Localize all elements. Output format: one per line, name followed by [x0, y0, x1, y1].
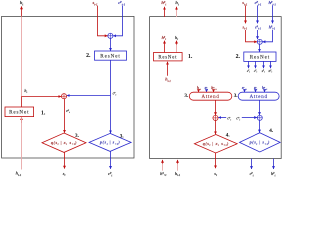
wire c^p_t-1 entering frame	[257, 5, 259, 23]
svg-text:ResNet: ResNet	[9, 110, 29, 116]
right panel frame	[150, 17, 282, 159]
wire h^q_<t up into frame (pale)	[162, 163, 164, 171]
wire ResNet1 to h^q_t label	[164, 41, 166, 53]
block ResNet 2 (left panel)	[95, 51, 127, 60]
wire s_t-1 into plus p	[98, 6, 108, 36]
wire e^q_t into posterior diamond	[64, 99, 66, 133]
wire h_t-1 into ResNet1	[167, 62, 169, 76]
arrowhead ResNet1 to h_t	[176, 41, 178, 45]
arrowhead h^q_<t	[162, 160, 164, 164]
distribution q(s_t|x,s_<t) diamond (right panel)	[194, 135, 237, 153]
wire h_{t-1} input below frame (pale)	[21, 158, 23, 170]
svg-text:Attend: Attend	[201, 95, 219, 100]
wire c^p_t-1 into plus p (right)	[257, 30, 259, 39]
wire ResNet1 to h_t label (pale)	[176, 44, 178, 53]
wire s_t output (right panel)	[215, 153, 217, 168]
wire Attend p to plus	[259, 100, 261, 115]
svg-text:2.: 2.	[86, 53, 91, 59]
svg-text:ResNet: ResNet	[100, 53, 120, 59]
wire c^p_t down to prior diamond	[110, 60, 112, 133]
wire h^q_t exit arrow	[164, 7, 166, 17]
wire h_t-1 up into frame (pale)	[177, 163, 179, 171]
wire plus to ResNet2 (right)	[259, 44, 261, 52]
wire h_t exit line (pale)	[176, 10, 178, 18]
distribution p(s_t|s_<t) diamond (right panel)	[240, 133, 281, 152]
block ResNet 1 (left panel)	[5, 107, 34, 117]
wire c^p_t-1 into plus p	[113, 6, 122, 36]
wire h_t exit arrowhead	[176, 7, 178, 10]
wire h^p_t-1 entering frame	[272, 5, 274, 23]
wire ResNet2 output 4	[270, 61, 272, 68]
wire h^p_t-1 into plus p (right)	[263, 30, 273, 42]
svg-text:1.: 1.	[41, 110, 46, 116]
wire s_t sample output (left panel)	[64, 152, 66, 168]
plus combiner q (left panel)	[61, 94, 66, 99]
wire h state line lower (pale)	[21, 117, 23, 158]
svg-text:Attend: Attend	[250, 95, 268, 100]
block ResNet 1 (right panel)	[154, 53, 183, 61]
plus combiner top (right panel)	[257, 39, 262, 44]
wire plus to ResNet2	[110, 38, 112, 50]
distribution q(s_t|x,s_<t) diamond (left panel)	[42, 133, 86, 152]
plus combiner p (right panel)	[257, 115, 262, 120]
block Attend prior (blue)	[238, 92, 279, 100]
wire z^p_t into Attend p	[255, 89, 257, 92]
svg-text:ResNet: ResNet	[158, 55, 177, 60]
wire into posterior diamond (right)	[215, 121, 217, 135]
block Attend posterior (red)	[189, 92, 232, 100]
wire c^p_t into plus q (right)	[218, 117, 226, 119]
distribution p(s_t|s_<t) diamond (left panel)	[89, 133, 131, 151]
wire c^p_t output (right panel)	[251, 159, 253, 169]
wire s_t-1 into plus p (right)	[246, 30, 258, 42]
plus combiner top (left panel)	[108, 33, 113, 38]
wire ResNet1 output segment	[21, 97, 23, 108]
left panel frame	[2, 16, 134, 158]
wire ResNet2 output 1	[248, 61, 250, 68]
wire h_t output arrow (left panel)	[21, 6, 23, 16]
svg-text:2.: 2.	[236, 54, 241, 60]
wire ResNet2 output 2	[255, 61, 257, 68]
wire c^p_t branch into plus q	[67, 95, 111, 97]
wire h^p_<t into Attend p	[264, 89, 266, 92]
svg-text:ResNet: ResNet	[250, 54, 270, 60]
plus combiner q (right panel)	[213, 115, 218, 120]
wire h^p_t output (right panel)	[273, 159, 275, 169]
wire s^p_<t into Attend p	[244, 89, 246, 92]
wire arrow into ResNet1 bottom	[21, 117, 23, 123]
wire h state line upper (pale)	[21, 16, 23, 96]
wire s_t-1 entering frame	[245, 5, 247, 23]
wire into prior diamond (right)	[259, 120, 261, 132]
wire Attend q to plus	[215, 100, 217, 115]
wire h^q_<t into Attend q	[213, 89, 215, 92]
block ResNet 2 (right panel)	[244, 52, 276, 61]
svg-text:1.: 1.	[188, 54, 193, 60]
wire h_<t into Attend q	[198, 89, 200, 92]
wire ResNet2 output 3	[263, 61, 265, 68]
wire z^p_t into Attend q	[206, 89, 208, 92]
arrowhead h_t-1 bottom	[177, 160, 179, 164]
wire h_t branch to plus q	[22, 96, 62, 98]
wire c^q_t into plus p (right)	[242, 117, 257, 119]
wire c^p_t output (left panel)	[110, 151, 112, 169]
